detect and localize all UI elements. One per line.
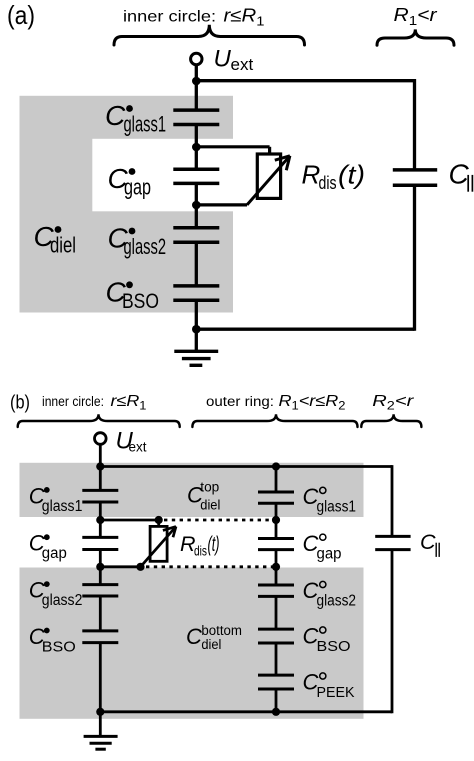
svg-text:gap: gap [42,545,67,562]
wire: bottom horizontal (panel a) [196,328,414,331]
svg-text:(b): (b) [10,393,30,414]
svg-text:R: R [302,160,321,190]
svg-text:dis: dis [194,543,207,559]
svg-text:glass1: glass1 [42,498,83,515]
svg-text:PEEK: PEEK [317,684,355,701]
capacitor C_glass2 (panel a) [173,226,219,230]
node: mid gap top (panel b) [272,516,280,524]
wire: left branch segment 3 [99,550,102,585]
brace: inner circle r<=R1 (panel a) [114,25,305,45]
wire: mid branch segment 3 [275,550,278,585]
svg-text:glass2: glass2 [317,592,357,609]
svg-text:diel: diel [200,498,220,513]
svg-text:glass1: glass1 [317,499,357,516]
wire: terminal stub (panel b) [99,444,102,466]
wire: mid branch segment 5 [275,643,278,675]
wire: C_gap to glass2 (panel a) [195,183,198,227]
wire: left branch segment 5 [99,643,102,712]
capacitor C_glass1 inner (panel b) [82,489,118,492]
node: left gap top (panel b) [96,516,104,524]
svg-text:top: top [200,480,219,495]
wire: mid branch segment 6 [275,689,278,712]
svg-text:outer ring:: outer ring: [206,394,274,409]
wire: left branch segment 1 [99,467,102,491]
svg-text:BSO: BSO [122,290,159,313]
gray band bottom (panel b) [20,568,364,719]
svg-text:gap: gap [124,174,151,199]
terminal U_ext (panel a) [191,53,202,64]
wire: C_glass1 to gap node (panel a) [195,125,198,170]
node: left gap bottom (panel b) [96,563,104,571]
node: bottom left (panel b) [96,708,104,716]
wire: left branch segment 2 [99,502,102,537]
wire: main branch top (panel a) [195,81,198,110]
gray band top (panel b) [20,463,364,517]
wire: right branch lower vertical (panel a) [413,185,416,331]
resistor R_dis arrow (panel a) [247,156,290,205]
capacitor C_glass2 outer (panel b) [258,584,294,587]
svg-text:(t): (t) [208,532,220,556]
capacitor C_gap outer (panel b) [258,537,294,540]
svg-text:bottom: bottom [201,623,242,638]
svg-text:(t): (t) [338,160,365,190]
svg-text:glass2: glass2 [42,592,83,609]
resistor R_dis arrow (panel b) [141,527,177,567]
brace: inner circle (panel b) [18,414,180,427]
capacitor C_PEEK outer (panel b) [258,674,294,677]
svg-text:BSO: BSO [42,638,76,655]
node: bottom junction (panel a) [192,325,201,334]
capacitor C_BSO inner (panel b) [82,629,118,632]
white notch for C_gap row (panel a) [92,139,233,212]
gray region C_diel (panel a) [20,96,234,313]
svg-text:inner circle:: inner circle: [42,394,104,409]
svg-text:inner circle:: inner circle: [123,9,216,26]
node: top left (panel b) [96,462,104,470]
wire: stub to box (panel b) [157,520,160,527]
svg-text:glass1: glass1 [124,111,167,136]
wire: bottom bus (panel b) [100,710,392,713]
wire: glass2 to BSO (panel a) [195,242,198,286]
capacitor C_par (panel a) [393,168,437,172]
svg-text:ext: ext [231,55,254,74]
wire: R_dis bottom connection (panel a) [196,203,247,206]
wire: R_dis top connection (panel a) [196,145,269,148]
capacitor C_gap inner (panel b) [82,536,118,539]
svg-text:C: C [186,624,202,649]
resistor R_dis box (panel b) [150,526,167,561]
wire: right branch upper vertical (panel a) [413,79,416,170]
svg-text:BSO: BSO [317,638,351,655]
node: mid gap bottom (panel b) [272,563,280,571]
wire: solid from left gap-bottom node (panel b) [100,565,140,568]
capacitor C_glass1 outer (panel b) [258,491,294,494]
wire: terminal to top node (panel a) [195,65,198,81]
node: R_dis top (panel b) [155,516,163,524]
svg-text:diel: diel [50,233,76,258]
brace: R1<r (panel a) [377,29,454,45]
wire: dotted bottom net (panel b) [146,565,276,568]
wire: top horizontal to right branch (panel a) [196,79,414,82]
resistor R_dis box (panel a) [257,154,280,198]
svg-text:ext: ext [129,439,147,455]
wire: mid branch segment 1 [275,467,278,493]
wire: BSO to bottom node (panel a) [195,300,198,329]
capacitor C_glass2 inner (panel b) [82,583,118,586]
wire: mid branch segment 4 [275,596,278,629]
wire: solid from left gap-top node (panel b) [100,519,158,522]
wire: top bus (panel b) [100,465,392,468]
node: top middle (panel b) [272,462,280,470]
node: gap top junction (panel a) [192,143,201,152]
capacitor C_gap (panel a) [173,167,219,171]
capacitor C_BSO outer (panel b) [258,628,294,631]
svg-text:C: C [449,159,470,190]
wire: right C_par branch (panel b) [391,465,394,536]
svg-text:glass2: glass2 [124,234,167,259]
node: gap bottom junction (panel a) [192,201,201,210]
svg-text:C: C [420,530,436,554]
node: bottom middle (panel b) [272,708,280,716]
svg-text:(a): (a) [7,0,35,30]
capacitor C_par (panel b) [375,535,410,538]
wire: mid branch segment 2 [275,503,278,538]
svg-text:dis: dis [319,173,337,193]
wire: dotted top net (panel b) [164,519,276,522]
brace: outer ring (panel b) [192,414,357,427]
svg-text:R1<r≤R2: R1<r≤R2 [279,393,346,413]
svg-text:gap: gap [317,545,342,562]
capacitor C_glass1 (panel a) [173,108,219,112]
terminal U_ext (panel b) [95,433,107,445]
ground (panel a) [195,329,198,351]
svg-text:U: U [214,46,232,73]
brace: R2<r (panel b) [361,414,421,427]
ground (panel b) [99,712,102,737]
node: top junction (panel a) [192,77,201,86]
capacitor C_BSO (panel a) [173,284,219,288]
node: R_dis bottom (panel b) [136,563,144,571]
svg-text:diel: diel [201,637,221,652]
wire: left branch segment 4 [99,596,102,631]
